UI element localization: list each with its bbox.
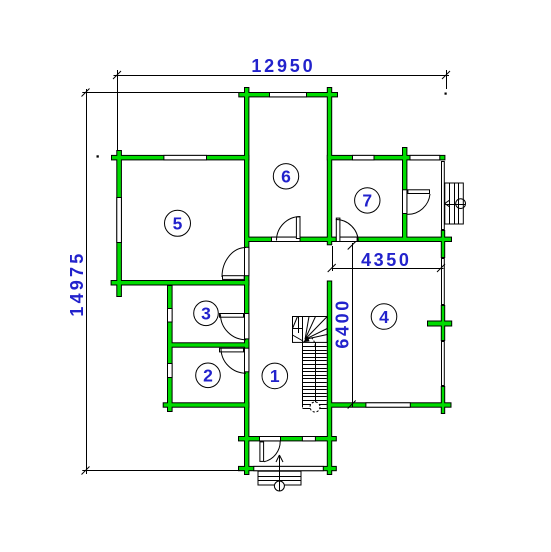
svg-text:5: 5 (173, 214, 183, 234)
svg-text:2: 2 (203, 366, 213, 386)
svg-text:6400: 6400 (333, 298, 353, 348)
svg-text:14975: 14975 (67, 251, 87, 317)
svg-text:1: 1 (270, 366, 280, 386)
svg-text:4: 4 (379, 307, 389, 327)
svg-text:12950: 12950 (251, 56, 315, 76)
svg-text:4350: 4350 (361, 250, 411, 270)
svg-text:7: 7 (362, 191, 372, 211)
svg-text:3: 3 (201, 304, 211, 324)
svg-text:6: 6 (281, 167, 291, 187)
